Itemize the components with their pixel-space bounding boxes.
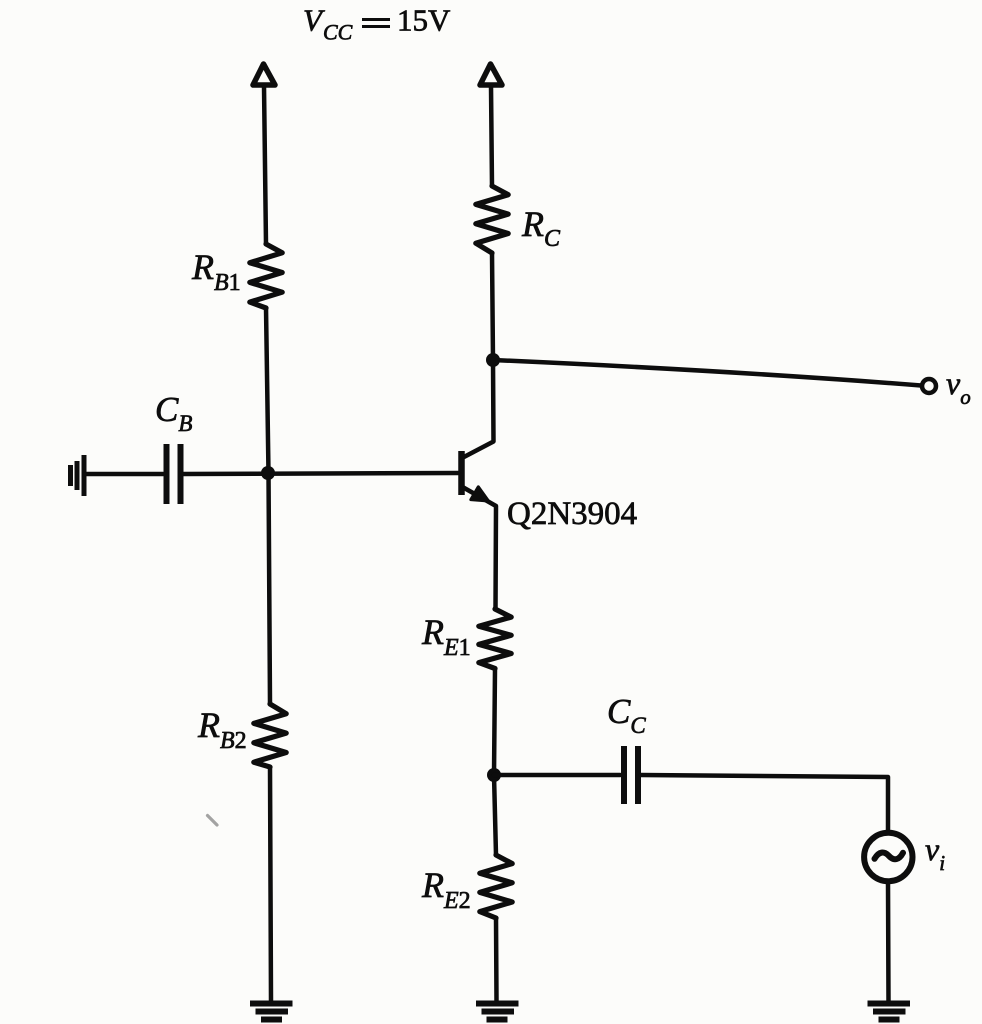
source vi circle [864, 833, 912, 881]
wire right branch top [491, 86, 492, 186]
svg-text:RE2: RE2 [421, 865, 471, 914]
svg-text:15V: 15V [397, 3, 451, 38]
wire left branch middle [266, 308, 270, 704]
node collector [486, 353, 500, 367]
transistor Q1 collector lead [463, 360, 494, 458]
transistor Q1 emitter lead [463, 487, 497, 609]
svg-text:CC: CC [607, 692, 646, 738]
source vi tilde [875, 853, 904, 860]
svg-text:RB2: RB2 [197, 705, 247, 754]
resistor RE2 [480, 855, 512, 918]
resistor RB1 [250, 244, 282, 308]
resistor RB2 [254, 704, 286, 767]
wire vi to ground [886, 883, 891, 1002]
wire CC to vi source [641, 775, 888, 832]
svg-text:Q2N3904: Q2N3904 [507, 496, 637, 532]
wire collector node to output vo [493, 360, 921, 386]
resistor RC [476, 186, 508, 253]
wire RE1 to emitter node [494, 669, 495, 776]
wire RE2 to ground [494, 918, 499, 1001]
svg-text:vi: vi [925, 831, 945, 875]
capacitor CB [167, 444, 181, 504]
svg-text:RB1: RB1 [191, 247, 241, 296]
capacitor CC [624, 746, 638, 804]
ground left branch [250, 1004, 293, 1020]
svg-text:CC: CC [323, 20, 353, 45]
wire emitter node down [494, 775, 496, 855]
wire input ground to CB [86, 472, 163, 477]
node emitter junction [487, 768, 501, 782]
svg-text:CB: CB [155, 390, 192, 436]
Vcc supply arrow right [480, 64, 502, 85]
svg-text:RE1: RE1 [421, 612, 471, 661]
svg-text:RC: RC [521, 204, 561, 252]
input ground symbol [71, 455, 85, 496]
ground right branch [476, 1004, 519, 1020]
Vcc supply arrow left [253, 64, 275, 85]
node base junction [261, 466, 275, 480]
transistor Q1 base bar [458, 451, 465, 495]
label VCC = 15V [303, 3, 451, 45]
terminal vo [922, 379, 936, 393]
transistor Q1 emitter arrow [471, 487, 489, 501]
svg-text:vo: vo [946, 365, 971, 409]
resistor RE1 [479, 609, 511, 669]
wire left branch bottom [270, 767, 271, 1001]
svg-text:V: V [303, 3, 325, 38]
scan smudge artifact [208, 816, 218, 826]
wire left branch top [264, 86, 266, 244]
ground vi [868, 1004, 911, 1020]
wire emitter node to CC [494, 773, 620, 778]
wire CB to base [183, 473, 458, 474]
wire RC to collector node [492, 253, 493, 360]
